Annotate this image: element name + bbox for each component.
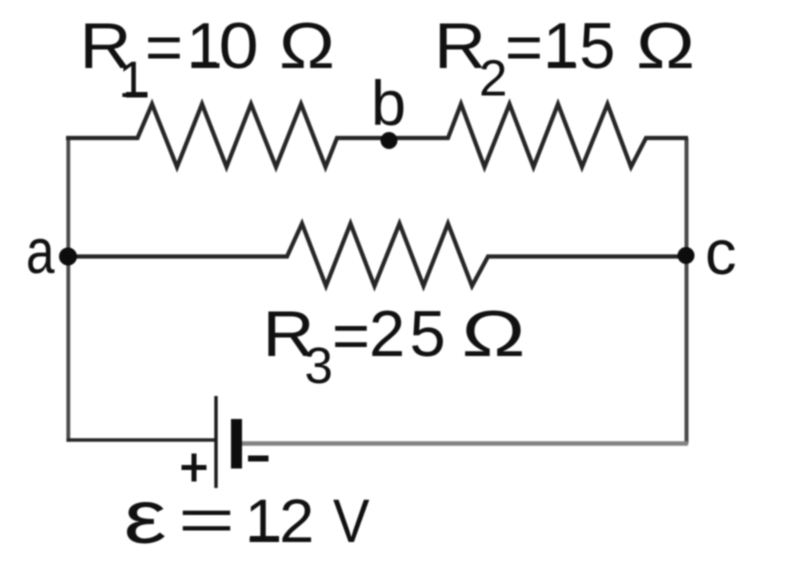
svg-text:b: b bbox=[371, 69, 406, 139]
svg-text:ε = 1 2 V: ε = 1 2 V bbox=[124, 475, 370, 560]
svg-text:c: c bbox=[705, 218, 737, 288]
svg-text:a: a bbox=[26, 217, 55, 287]
svg-text:R 1 = 1 0: R 1 = 1 0 Ω bbox=[80, 9, 336, 111]
svg-text:R 2 = 1 5: R 2 = 1 5 Ω bbox=[434, 9, 695, 110]
svg-text:R 3 = 2 5: R 3 = 2 5 Ω bbox=[263, 297, 526, 397]
